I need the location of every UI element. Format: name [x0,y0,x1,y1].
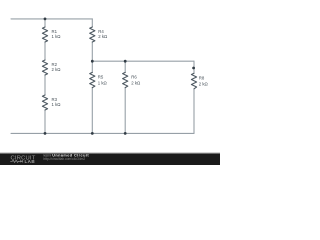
resistor R5 [90,72,95,87]
svg-text:LAB: LAB [25,159,36,164]
resistor R4 [90,27,95,42]
node bottom rail / R3 junction [44,132,47,135]
svg-text:1 kΩ: 1 kΩ [52,34,62,39]
svg-text:2 kΩ: 2 kΩ [52,67,62,72]
wire left branch segments (node A column x=45) [44,19,46,133]
wire middle rail [92,60,194,62]
resistor R6 [123,72,128,87]
node middle rail / R4-R5 junction [91,60,94,63]
svg-text:R8: R8 [199,75,205,80]
wire third branch segments (x=125) [124,61,126,133]
node bottom rail / R6 junction [124,132,127,135]
svg-text:1 kΩ: 1 kΩ [98,81,108,86]
wire right branch segments (x=194) [193,61,195,133]
wire bottom rail [11,132,194,134]
svg-text:R5: R5 [98,74,104,79]
node middle rail / R6 junction [124,60,127,63]
resistor R1 [42,27,47,42]
svg-text:2 kΩ: 2 kΩ [131,81,141,86]
svg-text:1 kΩ: 1 kΩ [52,102,62,107]
resistor R8 [191,73,196,89]
footer credit text [43,153,89,160]
footer bar [0,152,220,165]
node bottom rail / R5 junction [91,132,94,135]
svg-text:R6: R6 [131,74,137,79]
resistor R3 [42,95,47,110]
wire top rail [11,18,92,20]
wire second branch segments (x=92) [91,19,93,133]
svg-text:2 kΩ: 2 kΩ [199,81,209,86]
svg-text:2 kΩ: 2 kΩ [98,34,108,39]
svg-text:http://circuitlab.com/c4c34m2: http://circuitlab.com/c4c34m2 [43,157,85,161]
node top rail / R1 junction [44,18,47,21]
CircuitLab logo wordmark [10,156,35,164]
node R8 top terminal [192,67,195,70]
resistor R2 [42,60,47,75]
